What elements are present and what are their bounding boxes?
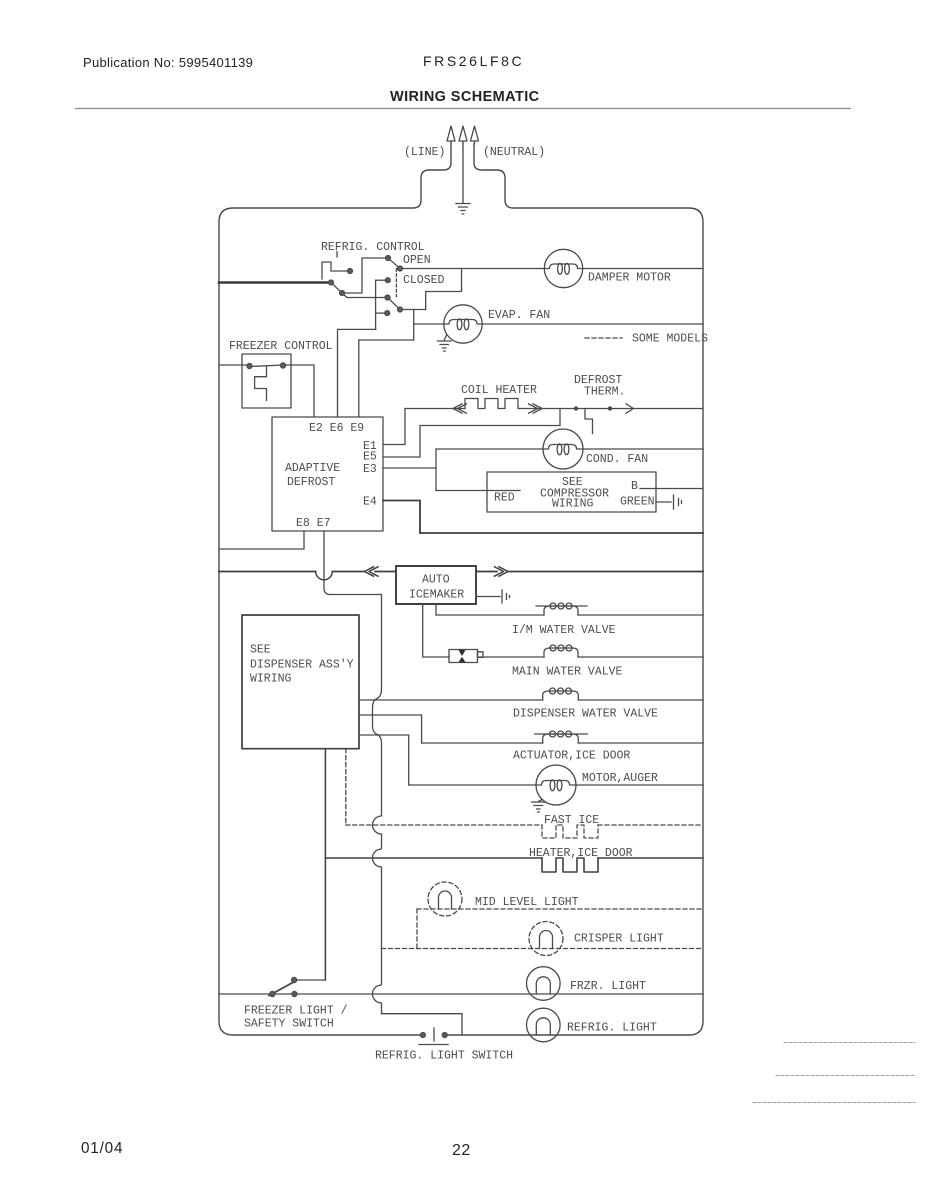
wire E7 down joining long vertical (324, 531, 382, 595)
adaptive defrost control box (272, 417, 383, 531)
wire I stub (376, 312, 388, 314)
ground symbol at evap fan (438, 335, 452, 351)
svg-text:ICEMAKER: ICEMAKER (409, 589, 464, 602)
svg-text:REFRIG. CONTROL: REFRIG. CONTROL (321, 241, 425, 254)
freezer control contact dots (247, 363, 252, 368)
evap fan motor M2 (444, 305, 482, 343)
cond fan motor M3 (543, 429, 583, 469)
heater ice door element (542, 858, 598, 872)
damper motor M1 (544, 249, 582, 287)
connector component on main valve line (449, 650, 483, 663)
svg-text:FRS26LF8C: FRS26LF8C (423, 53, 524, 69)
wire RED to compressor (436, 490, 520, 492)
wire F stub (376, 279, 388, 281)
svg-text:E4: E4 (363, 496, 377, 509)
main enclosure outline with plug bump (219, 144, 703, 1035)
svg-text:Publication No: 5995401139: Publication No: 5995401139 (83, 55, 253, 70)
svg-text:MID LEVEL LIGHT: MID LEVEL LIGHT (475, 896, 579, 909)
svg-text:I/M WATER VALVE: I/M WATER VALVE (512, 624, 616, 637)
solenoid coil actuator ice door (543, 734, 579, 743)
wire safety switch feed (294, 979, 325, 981)
svg-text:AUTO: AUTO (422, 574, 450, 587)
wire B terminal to neutral (640, 488, 703, 490)
svg-text:SEE: SEE (250, 644, 271, 657)
freezer control sensor zigzag (255, 367, 267, 400)
svg-text:SOME MODELS: SOME MODELS (632, 333, 708, 346)
freezer safety switch blade (269, 981, 296, 996)
wire E4 line to neutral (420, 532, 703, 534)
wire step from damper line to evap feed (426, 269, 462, 310)
faint ruled line 1 bottom right (784, 1042, 915, 1044)
crisper light lamp (529, 922, 563, 956)
svg-text:GREEN: GREEN (620, 496, 655, 509)
plug prong arrows (line / ground / neutral) (447, 126, 479, 144)
svg-text:01/04: 01/04 (81, 1140, 123, 1157)
wire heater ice door line (325, 857, 703, 859)
switch blade A-B (open) (388, 258, 400, 269)
wire auger motor line (409, 784, 703, 786)
wire dispenser water valve line (359, 699, 703, 701)
svg-text:DEFROST: DEFROST (287, 476, 335, 489)
svg-text:FAST ICE: FAST ICE (544, 814, 599, 827)
svg-text:E2 E6 E9: E2 E6 E9 (309, 422, 364, 435)
wire into evap fan (414, 323, 445, 325)
wire E5 (383, 409, 560, 458)
wire E3 (383, 467, 436, 469)
wire E4 (383, 501, 420, 534)
wire icemaker to chassis ground (476, 596, 500, 598)
svg-text:COIL HEATER: COIL HEATER (461, 384, 537, 397)
defrost thermostat contacts (574, 406, 578, 410)
freezer control blade (250, 365, 283, 367)
freezer light lamp (527, 967, 561, 1001)
refrig light switch contact dots (420, 1032, 425, 1037)
dashed wire mid level light line (417, 908, 703, 910)
svg-text:REFRIG. LIGHT: REFRIG. LIGHT (567, 1022, 657, 1035)
wire icemaker to I/M water valve (435, 604, 437, 615)
wire damper motor line (400, 268, 703, 270)
coil heater element (465, 399, 520, 409)
connector arrows on coil heater line (453, 404, 634, 413)
wire H to evap fan feed (400, 309, 426, 311)
svg-text:ACTUATOR,ICE DOOR: ACTUATOR,ICE DOOR (513, 750, 630, 763)
svg-text:CRISPER LIGHT: CRISPER LIGHT (574, 933, 664, 946)
wire icemaker divider line right (476, 571, 703, 573)
svg-text:FREEZER CONTROL: FREEZER CONTROL (229, 340, 333, 353)
svg-text:REFRIG. LIGHT SWITCH: REFRIG. LIGHT SWITCH (375, 1050, 513, 1063)
wire line feed (thick) to refrig control (219, 281, 331, 284)
refrig control label tick (336, 252, 338, 258)
wire E3 junction vertical (435, 449, 437, 491)
wire dispenser box to auger motor (359, 735, 409, 785)
svg-text:SAFETY SWITCH: SAFETY SWITCH (244, 1018, 334, 1031)
svg-text:THERM.: THERM. (584, 386, 625, 399)
wire E1 to coil heater line (383, 409, 405, 445)
title underline rule (75, 108, 851, 110)
svg-text:WIRING: WIRING (552, 498, 594, 511)
wire dispenser box to actuator (359, 715, 422, 743)
wire vertical F-I tie (375, 280, 377, 329)
svg-text:DISPENSER ASS'Y: DISPENSER ASS'Y (250, 659, 354, 672)
fast ice heater element (dashed) (542, 825, 598, 838)
long vertical wire with crossover hops (373, 595, 382, 1014)
defrost thermostat bracket (585, 409, 593, 434)
dashed wire mid light to crisper line (416, 909, 418, 949)
faint ruled line 3 bottom right (753, 1102, 915, 1104)
mid level light lamp (428, 882, 462, 916)
chassis ground symbol at compressor (674, 495, 682, 509)
svg-text:HEATER,ICE DOOR: HEATER,ICE DOOR (529, 847, 633, 860)
svg-text:RED: RED (494, 492, 515, 505)
solenoid coil dispenser water valve (543, 691, 579, 700)
wire actuator ice door line (422, 742, 703, 744)
freezer safety switch contact dots (270, 991, 275, 996)
wire E9 tap (359, 340, 414, 417)
dispenser assembly box (242, 615, 359, 749)
solenoid coil I/M water valve (544, 606, 578, 615)
wire E to A-feed (342, 258, 388, 293)
svg-text:FREEZER LIGHT /: FREEZER LIGHT / (244, 1005, 348, 1018)
svg-text:MAIN WATER VALVE: MAIN WATER VALVE (512, 666, 623, 679)
ground symbol below plug (456, 204, 470, 215)
contact dots refrig control (328, 255, 402, 315)
svg-text:FRZR. LIGHT: FRZR. LIGHT (570, 980, 646, 993)
svg-text:ADAPTIVE: ADAPTIVE (285, 462, 340, 475)
svg-text:EVAP. FAN: EVAP. FAN (488, 309, 550, 322)
refrig light switch push button (419, 1028, 448, 1045)
dashed wire dispenser box to fast ice (345, 749, 347, 825)
svg-text:WIRING SCHEMATIC: WIRING SCHEMATIC (390, 89, 540, 105)
wire E8 to line bus (219, 531, 304, 549)
switch blade D-E (331, 283, 342, 294)
wire evap fan feed vertical (413, 310, 415, 341)
svg-text:E5: E5 (363, 451, 377, 464)
svg-text:MOTOR,AUGER: MOTOR,AUGER (582, 772, 658, 785)
svg-text:OPEN: OPEN (403, 254, 431, 267)
wire main water valve line (479, 656, 703, 658)
wire coil heater line (405, 408, 703, 410)
some models dashed legend (585, 337, 622, 339)
wire dispenser box to heater ice door (324, 749, 326, 980)
refrig light lamp (527, 1008, 561, 1042)
auto icemaker box (396, 566, 476, 604)
faint ruled line 2 bottom right (776, 1075, 915, 1077)
switch blade G-H (closed) (388, 298, 401, 310)
wire into freezer control (219, 364, 250, 366)
dashed wire fast ice line (346, 824, 703, 826)
wire ground prong stem (462, 144, 464, 203)
auger motor M4 (536, 765, 576, 805)
svg-text:(LINE): (LINE) (404, 146, 445, 159)
wire cond fan line (436, 448, 703, 450)
svg-text:DAMPER MOTOR: DAMPER MOTOR (588, 272, 671, 285)
wire to E6 terminal (338, 329, 376, 417)
connector arrows at icemaker right (495, 567, 509, 576)
chassis ground symbol at icemaker (502, 590, 510, 603)
svg-text:(NEUTRAL): (NEUTRAL) (483, 146, 545, 159)
wire icemaker to main water valve (423, 604, 449, 657)
freezer control box (242, 354, 291, 408)
svg-text:E8 E7: E8 E7 (296, 517, 331, 530)
connector arrows at icemaker left (365, 567, 379, 576)
svg-text:DISPENSER WATER VALVE: DISPENSER WATER VALVE (513, 708, 658, 721)
wire GREEN to chassis ground (656, 501, 671, 503)
compressor wiring box (487, 472, 656, 512)
svg-text:22: 22 (452, 1142, 471, 1159)
wire E to G (lower pole) (342, 293, 388, 298)
dashed wire crisper light line (382, 948, 704, 950)
svg-text:B: B (631, 480, 638, 493)
wire evap fan to neutral (481, 323, 703, 325)
refrig control sensor bracket (322, 262, 350, 279)
solenoid coil main water valve (544, 648, 578, 657)
svg-text:WIRING: WIRING (250, 673, 292, 686)
wire freezer light line (219, 993, 703, 995)
dashed mechanical link of switch poles (395, 269, 397, 297)
wire freezer control to E2 (283, 365, 314, 417)
ground symbol at auger motor (532, 800, 546, 813)
svg-text:COND. FAN: COND. FAN (586, 453, 648, 466)
wire long vertical to refrig light switch (382, 1014, 463, 1035)
crossover hop on divider at E7 (316, 572, 333, 580)
svg-text:E3: E3 (363, 463, 377, 476)
svg-text:CLOSED: CLOSED (403, 274, 445, 287)
wire icemaker divider line left (219, 571, 396, 573)
wire I/M water valve line (436, 614, 703, 616)
